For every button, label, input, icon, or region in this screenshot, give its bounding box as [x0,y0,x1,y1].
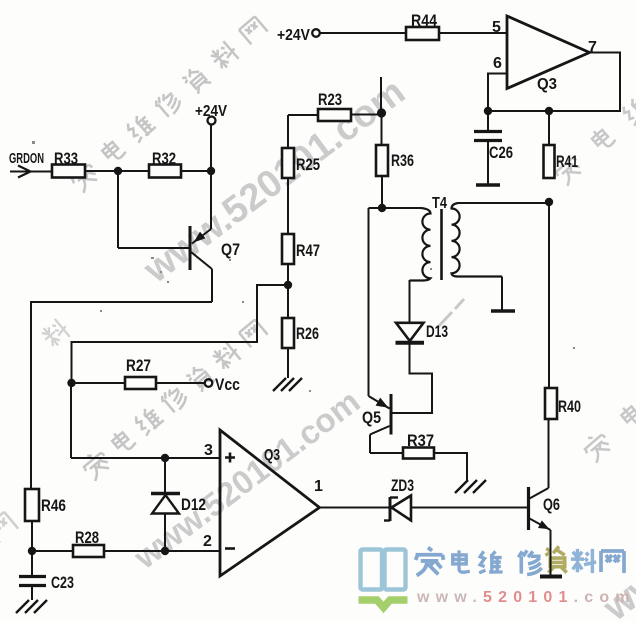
transistor Q5 [368,208,370,396]
svg-text:www.520101.com: www.520101.com [126,382,366,576]
diode D13 [409,280,411,322]
watermark: gray diagonal text top-left [67,16,268,193]
wire [287,348,289,378]
wire [85,170,149,172]
wire [287,264,289,318]
node junction R32/+24V/Q7 [207,167,215,175]
wire [287,178,289,234]
wire pin 6 [488,74,507,112]
wire [369,207,422,209]
capacitor C26 [487,111,489,130]
wire [320,32,406,34]
svg-text:C23: C23 [51,573,74,592]
node junction R41/T4 [545,198,553,206]
svg-text:3: 3 [204,442,213,459]
wire Q7 collector to R46 [31,302,212,489]
diode D12 [164,513,166,551]
node junction R27 [67,379,75,387]
ground below R37 [455,480,486,493]
ground below R26 [273,378,302,391]
node junction R23/R36 [377,108,386,117]
svg-text:T4: T4 [432,195,447,212]
svg-text:R41: R41 [556,152,578,171]
svg-text:R28: R28 [75,528,99,547]
power +24V terminal (top) [312,29,320,37]
node junction R46/R28/C23 [28,547,36,555]
wire secondary bottom to ground [501,277,503,311]
svg-text:D12: D12 [181,495,206,514]
wire [381,176,383,208]
wire [181,170,211,172]
wire [32,550,73,552]
wire [381,113,383,145]
node junction D12/pin3 wire [161,454,169,462]
wire op-amp pin 3 [71,457,221,459]
svg-text:R37: R37 [407,431,434,450]
svg-text:R36: R36 [391,151,414,170]
svg-text:R33: R33 [54,149,78,168]
svg-text:1: 1 [314,478,323,495]
wire [288,114,318,116]
svg-text:Q3: Q3 [537,76,557,93]
svg-text:6: 6 [493,55,502,72]
svg-text:R26: R26 [296,324,319,343]
resistor R47 [282,234,294,264]
wire [70,383,72,458]
scan specks [32,141,575,392]
wire [351,114,382,116]
svg-text:C26: C26 [489,143,513,162]
resistor R25 [282,148,294,178]
svg-text:R47: R47 [296,241,320,260]
svg-text:Q7: Q7 [221,240,240,259]
resistor R28 [73,545,104,557]
svg-text:R44: R44 [411,11,437,30]
resistor R44 [406,27,439,40]
ground below C23 [16,600,47,613]
svg-text:R32: R32 [152,149,176,168]
wire [10,171,52,173]
wire stub above R23 junction [380,77,382,113]
resistor R41 [544,145,555,178]
resistor R36 [376,145,388,176]
wire [156,382,205,384]
svg-text:www.520101.com: www.520101.com [416,589,636,606]
svg-text:R23: R23 [318,90,342,109]
svg-text:R46: R46 [41,496,66,515]
wire [434,453,467,480]
wire [71,382,125,384]
wire [548,111,550,145]
resistor R27 [125,377,156,389]
op-amp Q3 (upper section) [507,16,590,89]
capacitor C23 [31,551,33,575]
transformer T4 core [440,209,443,280]
node junction D12/R28 [161,547,169,555]
ground below C26 [476,183,500,186]
wire [210,124,212,171]
node junction R47/R26 [284,281,292,289]
node GRDON input [18,166,31,178]
svg-text:R40: R40 [558,397,581,416]
svg-text:ZD3: ZD3 [391,476,414,495]
wire [31,521,33,551]
transformer T4 primary winding [410,208,431,281]
wire to pin 5 [439,32,507,34]
resistor R32 [149,165,181,178]
wire to op-amp pin 2 [104,550,221,552]
logo: green swoosh [359,600,408,608]
transistor Q6 [527,487,530,530]
node junction feedback/C26 [484,107,492,115]
svg-text:Q5: Q5 [362,408,381,427]
svg-text:+24V: +24V [195,103,227,120]
op-amp Q3 (lower section) [220,430,320,576]
terminal Vcc [205,379,213,387]
transformer T4 secondary winding [452,203,503,277]
svg-text:D13: D13 [426,322,448,341]
ground below T4 secondary [491,309,515,312]
svg-text:5: 5 [492,19,501,36]
resistor R23 [318,109,351,121]
resistor R33 [52,165,85,178]
logo: book icon [361,550,406,590]
zener diode ZD3 [389,497,392,521]
transistor Q7 [210,171,212,229]
svg-text:GRDON: GRDON [9,151,44,167]
resistor R40 [545,388,557,419]
wire R40 to T4 node [548,202,550,388]
power +24V terminal (left) [208,117,216,125]
resistor R46 [25,489,39,521]
svg-text:Q6: Q6 [543,495,560,514]
wire R27 node to R47/R26 node [72,285,285,383]
ground below Q6 emitter [540,575,562,579]
node junction R36/T4/Q5 [378,204,386,212]
svg-text:R25: R25 [296,155,320,174]
resistor R37 [403,448,434,459]
wire feedback network [488,53,620,112]
svg-text:Q3: Q3 [264,447,280,464]
svg-text:www.520101.com: www.520101.com [136,71,413,292]
resistor R26 [282,318,294,348]
svg-text:Vcc: Vcc [215,375,240,394]
wire T4 secondary top to R41 node [458,202,549,204]
wire op-amp output [320,507,391,509]
svg-text:R27: R27 [126,356,151,375]
svg-text:2: 2 [203,533,212,550]
svg-text:7: 7 [588,39,597,56]
node junction feedback/R41 [545,107,553,115]
logo: blue chinese text [416,548,444,576]
svg-text:+24V: +24V [277,27,310,44]
node junction R33/R32 [114,167,122,175]
wire [287,115,289,148]
